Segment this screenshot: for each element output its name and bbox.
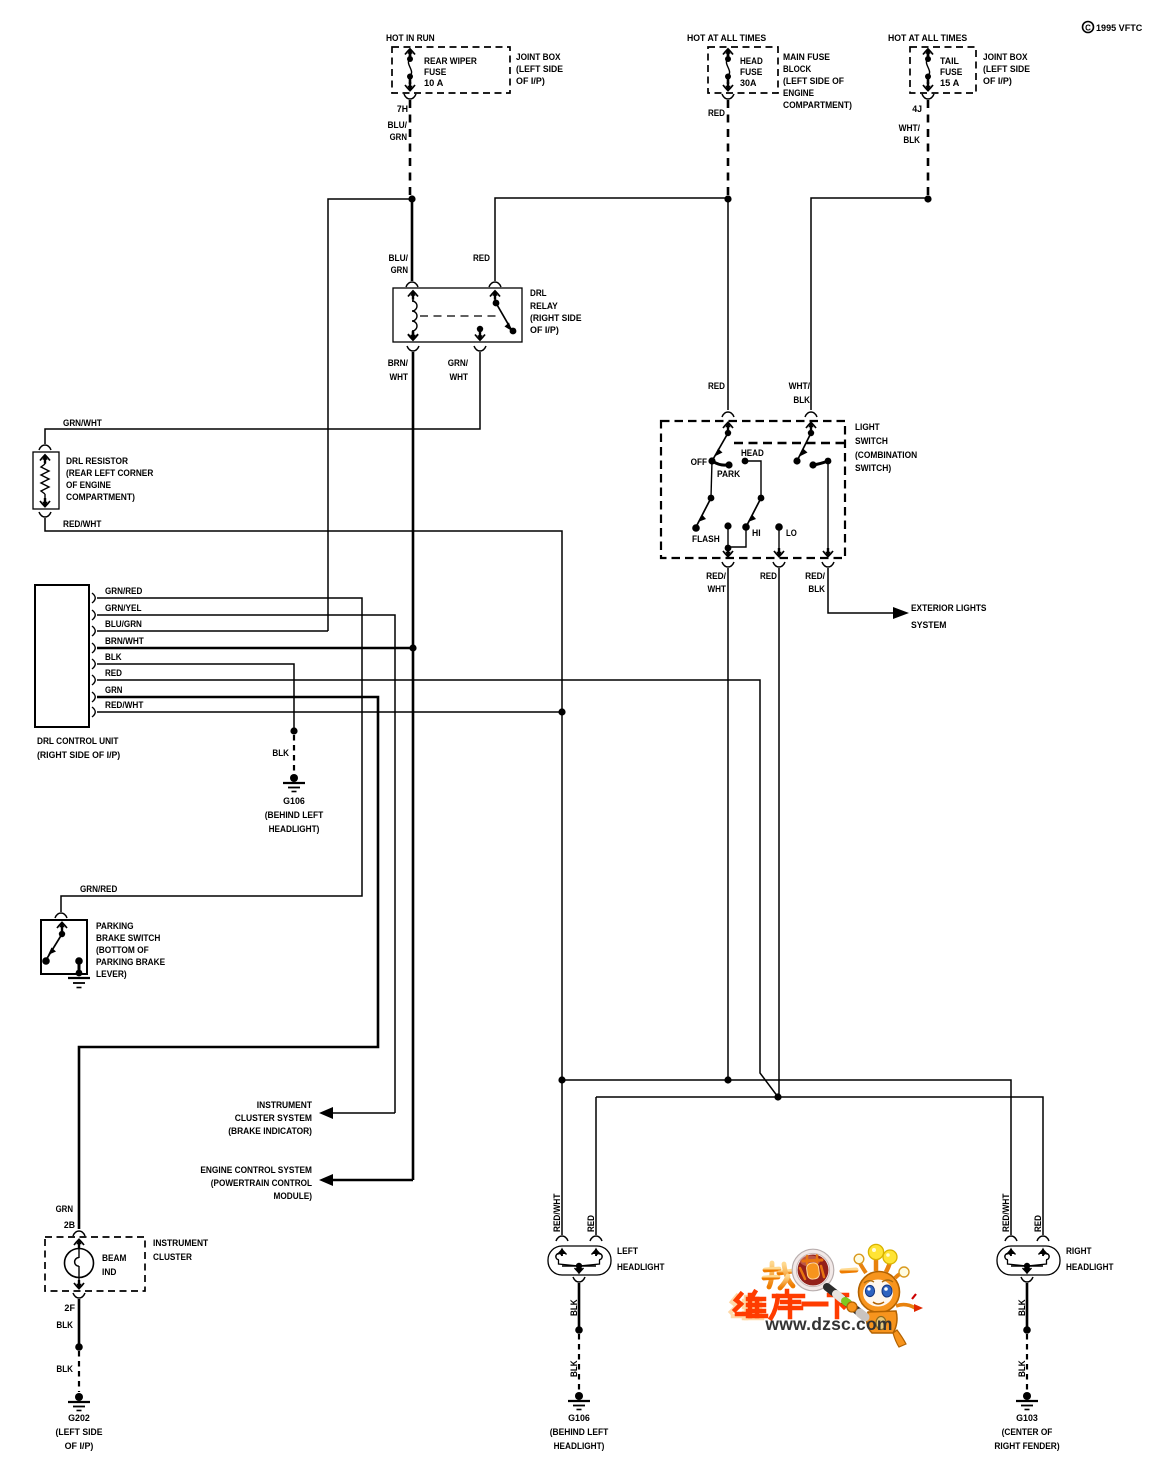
connector cup head fuse	[722, 94, 734, 99]
left headlight body	[548, 1246, 611, 1275]
node RED/WHT junction	[558, 708, 565, 715]
node RED bus junction	[724, 195, 731, 202]
svg-text:G202: G202	[68, 1413, 90, 1424]
wire GRN/YEL	[97, 615, 395, 1113]
svg-text:PARK: PARK	[717, 469, 740, 480]
svg-text:RED/: RED/	[805, 571, 825, 582]
contact HEAD	[742, 458, 749, 465]
wire BLK dashed to G202	[78, 1351, 80, 1392]
connector cup light switch WHT/BLK in	[805, 412, 817, 417]
wire RED/BLK to exterior lights	[828, 568, 895, 613]
node WHT/BLK bus junction	[924, 195, 931, 202]
fuse: REAR WIPER FUSE 10A	[405, 48, 415, 92]
svg-text:2B: 2B	[64, 1220, 75, 1231]
relay pin down arrow BRN/WHT	[408, 332, 418, 342]
svg-text:OF I/P): OF I/P)	[516, 76, 545, 87]
flasher pivot	[708, 495, 715, 502]
svg-text:HOT AT ALL TIMES: HOT AT ALL TIMES	[888, 33, 968, 44]
arrow to instrument cluster system	[319, 1107, 395, 1119]
ground G106 (DRL control unit)	[283, 774, 305, 792]
wire BLU/GRN to relay coil	[411, 199, 414, 281]
pin connector RED/WHT	[92, 707, 95, 717]
svg-text:BLK: BLK	[56, 1364, 73, 1375]
relay switch arm	[490, 290, 516, 334]
wire RED from switch down	[778, 568, 780, 1097]
copyright mark	[1083, 22, 1143, 35]
light switch gang2 pin arrow	[806, 422, 816, 437]
svg-text:BLU/GRN: BLU/GRN	[105, 619, 142, 630]
svg-text:OFF: OFF	[691, 457, 708, 468]
pin connector BLK	[92, 659, 95, 669]
svg-text:RIGHT FENDER): RIGHT FENDER)	[994, 1441, 1059, 1452]
svg-text:(LEFT SIDE: (LEFT SIDE	[56, 1427, 104, 1438]
output arrow RED/BLK	[823, 548, 833, 558]
svg-text:1995 VFTC: 1995 VFTC	[1096, 23, 1142, 34]
svg-text:ENGINE CONTROL SYSTEM: ENGINE CONTROL SYSTEM	[200, 1165, 312, 1176]
connector cup right headlight out	[1021, 1277, 1033, 1282]
connector cups left headlight	[556, 1236, 568, 1241]
node BLK splice	[290, 727, 297, 734]
svg-text:BLK: BLK	[808, 584, 825, 595]
svg-text:HEAD: HEAD	[740, 56, 763, 67]
svg-text:G106: G106	[568, 1413, 590, 1424]
wire RED/WHT headlight bus	[562, 1080, 1011, 1235]
svg-text:GRN/RED: GRN/RED	[105, 586, 142, 597]
svg-text:HEADLIGHT: HEADLIGHT	[617, 1262, 665, 1273]
connector cup instrument cluster in	[73, 1231, 85, 1236]
svg-text:(CENTER OF: (CENTER OF	[1002, 1427, 1053, 1438]
mascot	[854, 1244, 923, 1347]
svg-text:(LEFT SIDE: (LEFT SIDE	[983, 64, 1031, 75]
mechanical link dashed	[734, 442, 845, 445]
contact PARK with bridge	[713, 462, 729, 466]
svg-text:HOT AT ALL TIMES: HOT AT ALL TIMES	[687, 33, 767, 44]
wire RED/BLK to output	[827, 461, 829, 551]
wire BLU/GRN branch to DRL control unit	[328, 199, 412, 631]
connector cup relay GRN/WHT out	[474, 346, 486, 351]
char xia	[829, 1295, 847, 1317]
svg-text:FUSE: FUSE	[424, 67, 447, 78]
wire GRN/RED	[61, 598, 362, 912]
char zhao (outline)	[764, 1263, 793, 1288]
contact gang2	[793, 457, 800, 464]
svg-text:OF ENGINE: OF ENGINE	[66, 480, 112, 491]
connector cup RED/WHT out	[722, 562, 734, 567]
beam indicator bulb	[65, 1239, 94, 1290]
svg-text:G103: G103	[1016, 1413, 1038, 1424]
connector cup instrument cluster out	[73, 1293, 85, 1298]
contact RED/BLK with bridge	[809, 458, 831, 469]
svg-text:30A: 30A	[740, 78, 756, 89]
wire BLK to ground	[97, 664, 294, 729]
svg-text:(BEHIND LEFT: (BEHIND LEFT	[550, 1427, 609, 1438]
svg-text:FUSE: FUSE	[940, 67, 963, 78]
svg-text:JOINT BOX: JOINT BOX	[516, 52, 561, 63]
wire BLK from cluster	[78, 1299, 81, 1345]
parking brake internal ground	[68, 957, 90, 987]
svg-text:WHT: WHT	[390, 372, 409, 383]
output arrow RED (LO)	[774, 527, 784, 558]
svg-text:HEADLIGHT: HEADLIGHT	[1066, 1262, 1114, 1273]
magnifier handle	[827, 1287, 865, 1317]
resistor element	[40, 454, 50, 508]
right headlight body	[997, 1246, 1060, 1275]
svg-text:SWITCH): SWITCH)	[855, 463, 891, 474]
svg-text:RED/WHT: RED/WHT	[1001, 1193, 1012, 1232]
wire BLK right headlight	[1026, 1283, 1029, 1328]
svg-text:BLOCK: BLOCK	[783, 64, 811, 75]
connector cup parking brake switch	[55, 913, 67, 918]
svg-text:BLK: BLK	[1017, 1299, 1028, 1316]
light switch dashed box	[661, 421, 845, 558]
svg-text:(RIGHT SIDE OF I/P): (RIGHT SIDE OF I/P)	[37, 750, 120, 761]
svg-text:DRL CONTROL UNIT: DRL CONTROL UNIT	[37, 736, 119, 747]
svg-text:BEAM: BEAM	[102, 1253, 126, 1264]
wire RED down to light switch	[727, 199, 729, 410]
char pian (outline)	[842, 1258, 856, 1286]
svg-text:RED: RED	[473, 253, 490, 264]
node BLU/GRN bus junction	[408, 195, 415, 202]
wire RED/WHT from resistor	[45, 518, 562, 712]
wire GRN to beam indicator	[79, 697, 378, 1229]
connector cup RED out	[773, 562, 785, 567]
svg-text:PARKING: PARKING	[96, 921, 134, 932]
svg-text:(BOTTOM OF: (BOTTOM OF	[96, 945, 149, 956]
parking brake switch arm	[42, 934, 62, 965]
connector cup RED/BLK out	[822, 562, 834, 567]
node BLK splice left	[575, 1326, 583, 1334]
svg-text:G106: G106	[283, 796, 305, 807]
connector cup left headlight out	[573, 1277, 585, 1282]
wire BLK dashed to G103	[1026, 1334, 1028, 1391]
svg-text:15 A: 15 A	[940, 78, 959, 89]
wire GRN/WHT from relay to resistor	[45, 352, 480, 444]
contact LO	[775, 523, 783, 531]
weiku text shadow	[731, 1296, 762, 1318]
svg-text:WHT/: WHT/	[899, 123, 921, 134]
wire RED to left headlight	[595, 1097, 597, 1235]
svg-text:HI: HI	[752, 528, 761, 539]
wire HEAD to lower gang pivot	[745, 461, 761, 497]
pin connector RED	[92, 675, 95, 685]
svg-text:GRN: GRN	[390, 132, 407, 143]
svg-text:BLK: BLK	[1017, 1360, 1028, 1377]
svg-text:BLK: BLK	[569, 1360, 580, 1377]
light switch gang1 pin arrow	[723, 422, 733, 437]
contact RED/WHT output	[724, 522, 731, 529]
svg-text:(LEFT SIDE OF: (LEFT SIDE OF	[783, 76, 844, 87]
svg-text:INSTRUMENT: INSTRUMENT	[153, 1238, 208, 1249]
parking brake switch box	[41, 920, 87, 974]
svg-text:BRN/: BRN/	[388, 358, 409, 369]
contact OFF	[708, 457, 715, 464]
arrow to engine control system	[319, 1174, 413, 1186]
node RED/WHT switch joins bus	[724, 1076, 731, 1083]
svg-text:RED: RED	[708, 381, 725, 392]
svg-text:RED/WHT: RED/WHT	[105, 700, 144, 711]
svg-text:GRN/: GRN/	[448, 358, 469, 369]
svg-text:FUSE: FUSE	[740, 67, 763, 78]
wire OFF to flasher pivot	[711, 461, 712, 497]
svg-text:LEVER): LEVER)	[96, 969, 127, 980]
svg-text:GRN: GRN	[391, 265, 408, 276]
svg-text:MODULE): MODULE)	[274, 1191, 313, 1202]
svg-text:GRN/WHT: GRN/WHT	[63, 418, 102, 429]
wire BLU/GRN pin	[97, 630, 328, 632]
light switch gang1 arm	[712, 433, 728, 461]
connector cup relay pin RED	[489, 282, 501, 287]
svg-text:(RIGHT SIDE: (RIGHT SIDE	[530, 313, 582, 324]
svg-text:JOINT BOX: JOINT BOX	[983, 52, 1028, 63]
wire RED/WHT down to headlight bus	[561, 712, 563, 1080]
svg-text:LIGHT: LIGHT	[855, 422, 880, 433]
fuse: HEAD FUSE 30A	[723, 48, 733, 92]
node BLK splice right	[1023, 1326, 1031, 1334]
svg-text:HEADLIGHT): HEADLIGHT)	[554, 1441, 605, 1452]
char pian	[842, 1258, 856, 1286]
connector cup light switch RED in	[722, 412, 734, 417]
svg-text:LEFT: LEFT	[617, 1246, 638, 1257]
svg-text:COMPARTMENT): COMPARTMENT)	[783, 100, 852, 111]
wire RED/WHT from switch down	[727, 568, 729, 1080]
svg-text:HEADLIGHT): HEADLIGHT)	[269, 824, 320, 835]
svg-text:BLK: BLK	[903, 135, 920, 146]
DRL resistor box	[33, 452, 59, 509]
svg-text:DRL RESISTOR: DRL RESISTOR	[66, 456, 128, 467]
ground G106 (left headlight)	[568, 1392, 590, 1410]
relay internal dashed link	[420, 315, 497, 317]
watermark dzsc.com logo	[731, 1244, 923, 1347]
wire RED/WHT pin	[97, 711, 562, 713]
svg-text:GRN: GRN	[56, 1204, 73, 1215]
char yi	[804, 1302, 826, 1307]
svg-text:C: C	[1085, 24, 1091, 33]
connector 4J cup	[922, 94, 934, 99]
contact HI	[742, 523, 750, 531]
svg-text:RED/WHT: RED/WHT	[552, 1193, 563, 1232]
wire RED dashed from head fuse	[727, 100, 730, 196]
wire RED/WHT to left headlight	[561, 1080, 563, 1235]
wire BLK left headlight	[578, 1283, 581, 1328]
svg-text:OF I/P): OF I/P)	[65, 1441, 94, 1452]
svg-text:(COMBINATION: (COMBINATION	[855, 450, 917, 461]
svg-text:(LEFT SIDE: (LEFT SIDE	[516, 64, 564, 75]
svg-text:BRAKE SWITCH: BRAKE SWITCH	[96, 933, 160, 944]
connector cup resistor top	[39, 445, 51, 450]
svg-text:GRN/RED: GRN/RED	[80, 884, 117, 895]
node BLK splice G202	[75, 1343, 83, 1351]
node BRN/WHT junction	[409, 644, 416, 651]
svg-text:COMPARTMENT): COMPARTMENT)	[66, 492, 135, 503]
wire RED to headlight junction	[97, 680, 778, 1097]
connector 7H cup	[404, 94, 416, 99]
svg-text:(BRAKE INDICATOR): (BRAKE INDICATOR)	[228, 1126, 312, 1137]
svg-text:BLU/: BLU/	[389, 253, 409, 264]
parking brake switch pin arrow	[57, 922, 67, 938]
pin connector BLU/GRN	[92, 626, 95, 636]
wire RED headlight bus	[596, 1097, 1043, 1235]
joint box (rear wiper fuse) dashed box	[392, 47, 510, 93]
wire BRN/WHT pin	[97, 647, 413, 650]
svg-text:WHT: WHT	[708, 584, 727, 595]
svg-text:EXTERIOR LIGHTS: EXTERIOR LIGHTS	[911, 603, 987, 614]
wire contact to output pin	[727, 526, 729, 548]
wire BLU/GRN dashed from fuse 7H	[409, 100, 412, 196]
svg-text:IND: IND	[102, 1267, 116, 1278]
node RED bus junction	[774, 1093, 781, 1100]
svg-text:www.dzsc.com: www.dzsc.com	[764, 1314, 892, 1334]
svg-text:BLK: BLK	[569, 1299, 580, 1316]
svg-text:ENGINE: ENGINE	[783, 88, 814, 99]
svg-text:HEAD: HEAD	[741, 448, 764, 459]
light switch dimmer pivot (head side)	[758, 495, 765, 502]
node RED/WHT headlight bus left	[558, 1076, 565, 1083]
pin connector GRN/YEL	[92, 610, 95, 620]
svg-text:RED/: RED/	[706, 571, 726, 582]
ground G103	[1016, 1392, 1038, 1410]
svg-text:CLUSTER: CLUSTER	[153, 1252, 192, 1263]
svg-text:BLK: BLK	[56, 1320, 73, 1331]
char zhao	[764, 1263, 793, 1288]
relay contact GRN/WHT pin	[475, 326, 485, 341]
dimmer arm (HI side)	[746, 498, 761, 527]
magnifying glass	[792, 1249, 834, 1291]
connector cup relay BRN/WHT out	[407, 346, 419, 351]
svg-text:RED: RED	[1033, 1215, 1044, 1232]
svg-text:BRN/WHT: BRN/WHT	[105, 636, 144, 647]
arrow exterior lights system	[893, 607, 909, 619]
DRL control unit box	[35, 585, 89, 727]
svg-text:RELAY: RELAY	[530, 301, 558, 312]
svg-text:(BEHIND LEFT: (BEHIND LEFT	[265, 810, 324, 821]
svg-text:RED: RED	[105, 668, 122, 679]
flasher arm	[696, 498, 711, 527]
svg-text:SYSTEM: SYSTEM	[911, 620, 947, 631]
svg-text:OF I/P): OF I/P)	[530, 325, 559, 336]
svg-text:WHT: WHT	[450, 372, 469, 383]
svg-text:DRL: DRL	[530, 288, 547, 299]
svg-text:PARKING BRAKE: PARKING BRAKE	[96, 957, 166, 968]
svg-text:(POWERTRAIN CONTROL: (POWERTRAIN CONTROL	[211, 1178, 312, 1189]
relay coil	[408, 290, 418, 341]
svg-text:GRN/YEL: GRN/YEL	[105, 603, 142, 614]
wire BLK dashed to G106	[578, 1334, 580, 1391]
svg-text:10 A: 10 A	[424, 78, 443, 89]
connector cup relay pin BLU/GRN	[406, 282, 418, 287]
svg-text:FLASH: FLASH	[692, 534, 720, 545]
svg-text:CLUSTER SYSTEM: CLUSTER SYSTEM	[235, 1113, 312, 1124]
light switch gang2 arm	[797, 433, 811, 461]
svg-text:(REAR LEFT CORNER: (REAR LEFT CORNER	[66, 468, 153, 479]
char ku	[771, 1291, 803, 1318]
joint box (tail fuse) dashed box	[910, 47, 976, 93]
wire BRN/WHT from relay down	[412, 352, 415, 647]
pin connector GRN	[92, 692, 95, 702]
wire BLK dashed to ground	[293, 735, 295, 773]
svg-text:TAIL: TAIL	[940, 56, 959, 67]
svg-text:BLK: BLK	[105, 652, 122, 663]
svg-text:GRN: GRN	[105, 685, 122, 696]
DRL relay box	[393, 288, 522, 342]
svg-text:REAR WIPER: REAR WIPER	[424, 56, 477, 67]
svg-text:LO: LO	[786, 528, 797, 539]
wire BRN/WHT down to engine control arrow	[412, 648, 415, 1180]
contact FLASH	[692, 524, 700, 532]
svg-text:BLK: BLK	[272, 748, 289, 759]
main fuse block dashed box	[708, 47, 778, 93]
svg-text:RIGHT: RIGHT	[1066, 1246, 1092, 1257]
pin connector GRN/RED	[92, 593, 95, 603]
connector cups right headlight	[1005, 1236, 1017, 1241]
svg-text:RED: RED	[586, 1215, 597, 1232]
wire HI to output	[728, 527, 746, 547]
svg-text:RED/WHT: RED/WHT	[63, 519, 102, 530]
output arrow RED/WHT	[723, 548, 733, 558]
svg-text:BLU/: BLU/	[388, 120, 408, 131]
wire RED bus to relay	[495, 198, 728, 281]
wire WHT/BLK bus to light switch	[811, 198, 928, 410]
svg-text:HOT IN RUN: HOT IN RUN	[386, 33, 435, 44]
wire WHT/BLK dashed from tail fuse	[927, 100, 930, 196]
fuse: TAIL FUSE 15A	[923, 48, 933, 92]
svg-text:RED: RED	[708, 108, 725, 119]
svg-text:7H: 7H	[397, 104, 408, 115]
svg-text:OF I/P): OF I/P)	[983, 76, 1012, 87]
svg-text:INSTRUMENT: INSTRUMENT	[257, 1100, 312, 1111]
ground G202	[68, 1393, 90, 1411]
connector cup resistor bottom	[39, 512, 51, 517]
svg-text:2F: 2F	[64, 1303, 75, 1314]
pin connector BRN/WHT	[92, 643, 95, 653]
char wei	[735, 1292, 766, 1316]
svg-text:RED: RED	[760, 571, 777, 582]
svg-text:BLK: BLK	[793, 395, 810, 406]
svg-text:WHT/: WHT/	[789, 381, 811, 392]
instrument cluster dashed box	[45, 1237, 145, 1291]
svg-text:MAIN FUSE: MAIN FUSE	[783, 52, 831, 63]
svg-text:4J: 4J	[912, 104, 922, 115]
svg-text:SWITCH: SWITCH	[855, 436, 888, 447]
